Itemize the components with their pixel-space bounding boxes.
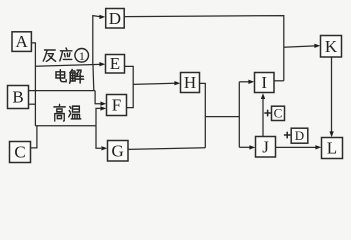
box G <box>108 141 129 162</box>
label gaowen char gao <box>54 104 65 121</box>
wire I out <box>274 80 284 82</box>
svg-text:I: I <box>261 73 267 92</box>
wire line1 reaction1 to E <box>35 64 100 66</box>
label gaowen char wen <box>69 106 81 119</box>
svg-text:F: F <box>112 96 121 115</box>
arrowhead into F lower <box>100 106 106 110</box>
arrowhead into L left <box>315 145 321 149</box>
wire line2 down to F upper arrow <box>95 91 100 104</box>
wire C feed up to line3 <box>31 126 37 148</box>
box K <box>321 36 342 58</box>
wire arrow stub into J <box>239 146 250 148</box>
svg-text:E: E <box>110 54 120 73</box>
arrowhead into H <box>174 81 180 85</box>
wire J out to L <box>276 146 316 148</box>
box C <box>10 142 31 163</box>
label fanying1 char fan <box>43 50 55 61</box>
wire K down to L <box>331 57 333 132</box>
arrowhead into J <box>249 145 255 149</box>
arrowhead J into I bottom <box>261 93 265 99</box>
wire line3 down to G arrow <box>96 126 101 149</box>
label fanying1 char ying <box>60 48 72 61</box>
svg-text:D: D <box>109 9 121 28</box>
svg-text:C: C <box>14 143 25 162</box>
label dianjie char jie <box>70 70 84 84</box>
wire J up to I <box>262 98 264 137</box>
svg-text:L: L <box>327 139 337 158</box>
svg-text:J: J <box>262 137 269 156</box>
wire line3 high temperature <box>35 125 96 127</box>
arrowhead into D <box>99 15 105 19</box>
svg-text:1: 1 <box>79 49 85 63</box>
box L <box>322 138 343 159</box>
wire vertical to D <box>93 16 100 65</box>
wire line3 up to F lower arrow <box>96 108 100 125</box>
box D <box>106 9 125 29</box>
arrowhead into L top <box>329 131 333 137</box>
wire E out and F out merge <box>125 66 134 107</box>
svg-text:D: D <box>295 128 304 143</box>
arrowhead into F upper <box>100 102 106 106</box>
wire I J vertical <box>238 82 240 148</box>
box B <box>8 86 29 109</box>
box J <box>256 137 276 158</box>
svg-text:H: H <box>184 73 196 92</box>
label circled 1 <box>75 49 89 63</box>
wire H out down <box>200 83 206 147</box>
box F <box>107 95 127 116</box>
svg-text:G: G <box>112 141 124 160</box>
svg-text:C: C <box>274 106 283 121</box>
box I <box>255 73 275 93</box>
wire D out long <box>124 16 284 81</box>
wire arrow stub into I <box>239 81 249 83</box>
arrowhead into E <box>99 62 105 66</box>
box A <box>12 32 31 52</box>
wire mid branch right <box>205 116 239 118</box>
arrowhead into I <box>248 80 254 84</box>
label plus D <box>285 132 290 137</box>
arrowhead into K <box>314 44 320 48</box>
svg-text:A: A <box>16 32 29 51</box>
label plus C <box>265 110 270 115</box>
wire into H <box>133 83 175 84</box>
box E <box>106 55 125 74</box>
wire vertical line1 down to line2 <box>92 65 95 91</box>
svg-text:K: K <box>325 37 338 56</box>
wire G out long <box>128 148 205 150</box>
arrowhead into G <box>101 146 107 150</box>
wire line2 electrolysis from B <box>29 90 95 92</box>
wire into K <box>284 46 315 47</box>
wire B lower stub <box>29 103 36 105</box>
box H <box>181 73 200 93</box>
label dianjie char dian <box>56 70 66 82</box>
wire A to trunk and trunk vertical <box>31 43 35 126</box>
svg-text:B: B <box>12 88 23 107</box>
